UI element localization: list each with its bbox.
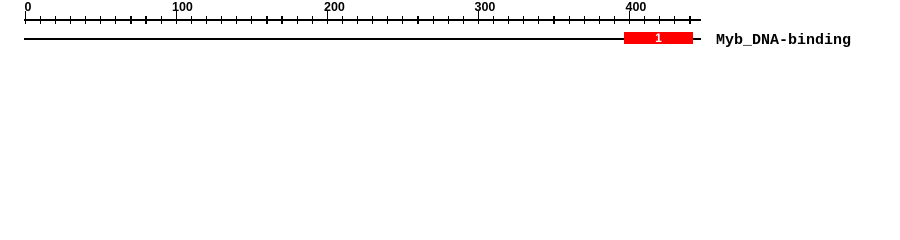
minor tick 360 [569,16,570,24]
minor tick 120 [206,16,207,24]
minor tick 90 [161,16,162,24]
minor tick 260 [417,16,418,24]
minor tick 250 [402,16,403,24]
major tick 0 [25,11,26,24]
minor tick 390 [614,16,615,24]
minor tick 160 [266,16,267,24]
domain box Myb_DNA-binding (1) [624,32,693,45]
minor tick 320 [508,16,509,24]
ruler axis line [24,19,701,21]
minor tick 60 [115,16,116,24]
minor tick 80 [145,16,146,24]
minor tick 410 [644,16,645,24]
minor tick 350 [553,16,554,24]
minor tick 230 [372,16,373,24]
minor tick 340 [538,16,539,24]
ruler label 300 [475,1,496,13]
minor tick 40 [85,16,86,24]
ruler label 100 [172,1,193,13]
major tick 200 [327,11,328,24]
minor tick 290 [463,16,464,24]
minor tick 130 [221,16,222,24]
minor tick 270 [433,16,434,24]
minor tick 370 [584,16,585,24]
minor tick 180 [297,16,298,24]
ruler label 0 [25,1,32,13]
minor tick 150 [251,16,252,24]
minor tick 330 [523,16,524,24]
minor tick 190 [312,16,313,24]
minor tick 440 [689,16,690,24]
ruler label 200 [324,1,345,13]
minor tick 310 [493,16,494,24]
minor tick 380 [599,16,600,24]
minor tick 280 [448,16,449,24]
major tick 100 [176,11,177,24]
minor tick 170 [281,16,282,24]
minor tick 240 [387,16,388,24]
ruler label 400 [626,1,647,13]
minor tick 70 [130,16,131,24]
domain number 1 [624,32,693,44]
domain name label Myb_DNA-binding [716,35,851,47]
minor tick 140 [236,16,237,24]
major tick 400 [629,11,630,24]
minor tick 430 [674,16,675,24]
major tick 300 [478,11,479,24]
minor tick 50 [100,16,101,24]
minor tick 420 [659,16,660,24]
minor tick 20 [55,16,56,24]
minor tick 30 [70,16,71,24]
minor tick 110 [191,16,192,24]
minor tick 10 [40,16,41,24]
minor tick 220 [357,16,358,24]
protein backbone line [24,38,701,40]
minor tick 210 [342,16,343,24]
